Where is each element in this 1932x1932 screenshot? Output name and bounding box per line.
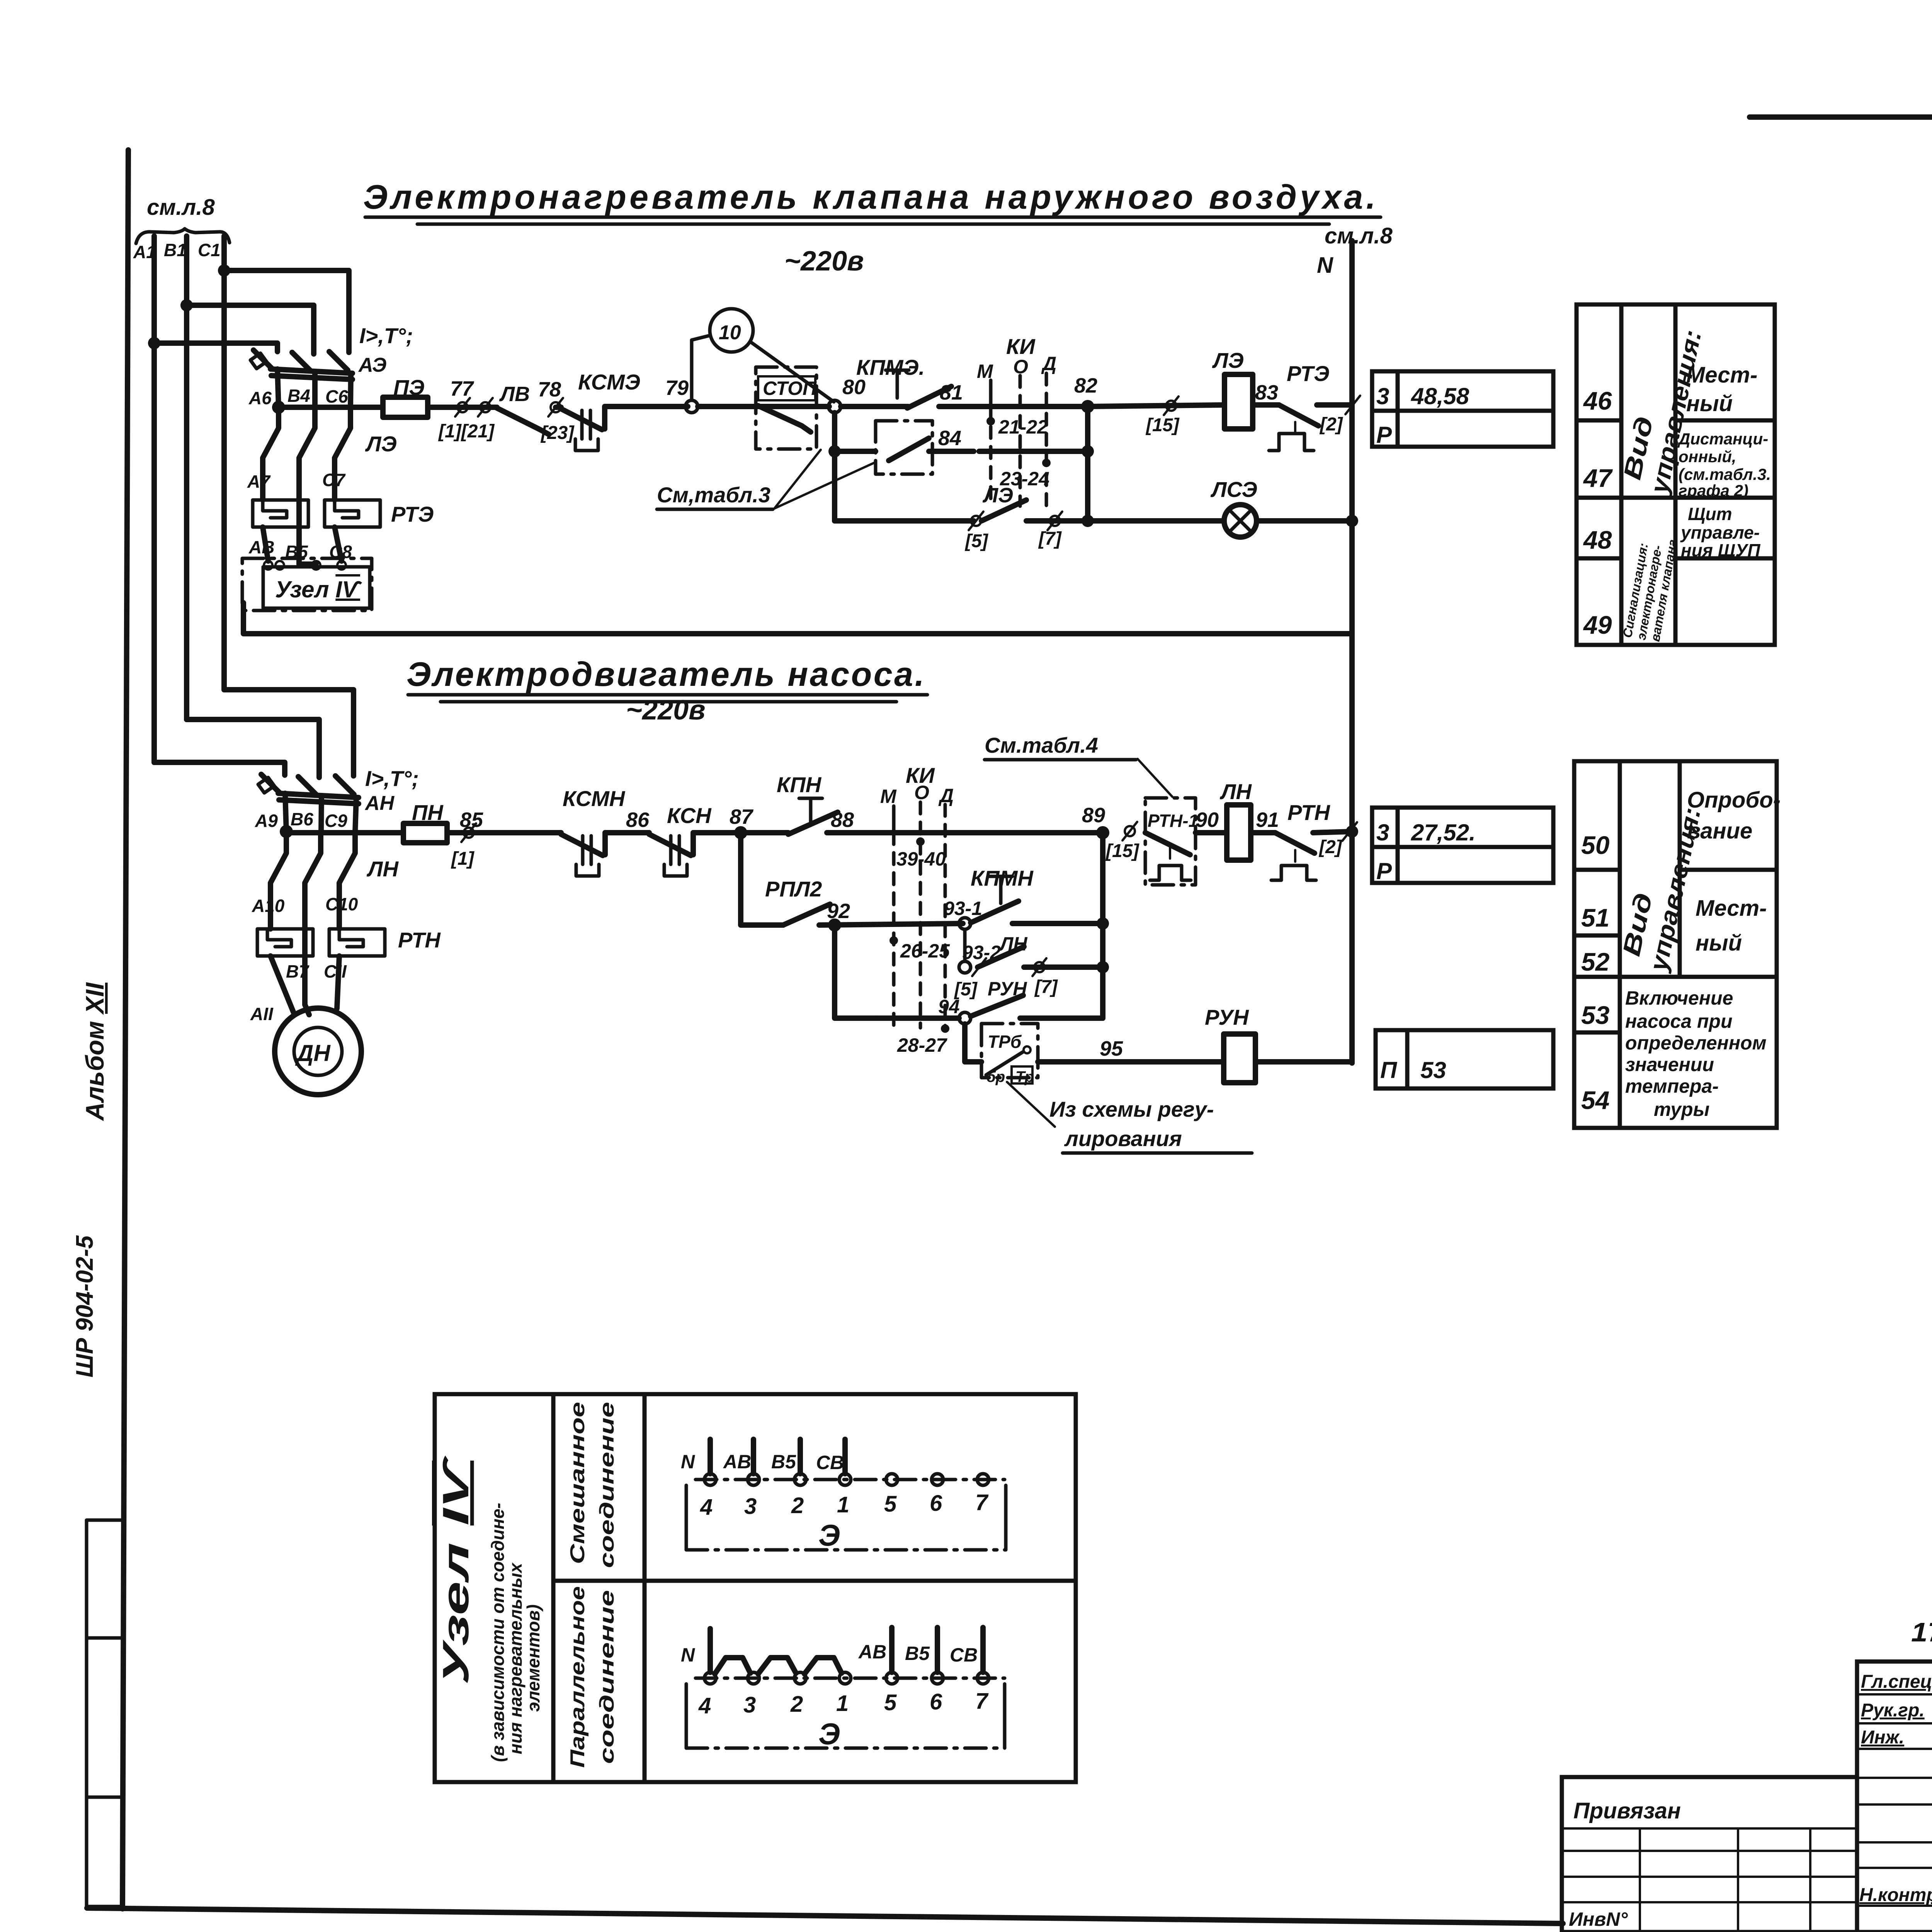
svg-text:7: 7 xyxy=(975,1689,989,1714)
svg-text:90: 90 xyxy=(1196,808,1219,832)
svg-text:А9: А9 xyxy=(255,811,278,831)
wire 91 xyxy=(1251,830,1275,835)
svg-text:О: О xyxy=(914,782,929,803)
svg-text:ный: ный xyxy=(1696,930,1742,956)
wire lamp to N xyxy=(1257,518,1352,524)
svg-text:48,58: 48,58 xyxy=(1411,383,1469,409)
svg-text:РТН: РТН xyxy=(398,928,441,952)
svg-text:РУН: РУН xyxy=(1205,1005,1249,1029)
wire 90 xyxy=(1196,830,1227,835)
svg-text:Из схемы регу-: Из схемы регу- xyxy=(1049,1097,1214,1121)
svg-text:Электронагреватель клапана н: Электронагреватель клапана наружного воз… xyxy=(363,178,1376,216)
svg-text:КСМН: КСМН xyxy=(563,786,626,811)
heater box mixed xyxy=(685,1485,688,1550)
svg-text:77: 77 xyxy=(450,377,474,400)
wire B1 to motor breaker xyxy=(187,719,319,777)
svg-text:А6: А6 xyxy=(248,388,272,408)
contactor LN pole columns xyxy=(270,833,286,929)
wire RUN coil to N xyxy=(1255,1062,1352,1063)
svg-text:78: 78 xyxy=(538,378,561,401)
svg-text:93-1: 93-1 xyxy=(944,898,982,919)
svg-text:определенном: определенном xyxy=(1625,1032,1767,1054)
wire 92 branch down xyxy=(835,925,877,1018)
mark 28-27 xyxy=(941,1024,949,1033)
svg-text:81: 81 xyxy=(940,381,963,404)
svg-text:ния нагревательных: ния нагревательных xyxy=(505,1562,526,1754)
wire 82 branch down xyxy=(1085,406,1090,521)
thermal element RTN phase A xyxy=(257,929,313,956)
svg-text:53: 53 xyxy=(1420,1057,1446,1083)
terminal box 48,58 xyxy=(1372,371,1553,447)
breaker AE body xyxy=(270,369,352,373)
svg-text:(см.табл.3.: (см.табл.3. xyxy=(1679,465,1771,483)
wire 79-80 xyxy=(698,404,829,409)
contact LE aux xyxy=(969,512,983,530)
breaker AN trip flag xyxy=(258,777,274,793)
svg-text:бр: бр xyxy=(986,1068,1005,1085)
svg-text:79: 79 xyxy=(665,376,689,400)
fuse PN xyxy=(403,823,447,843)
svg-text:АІІ: АІІ xyxy=(250,1004,274,1024)
terminals parallel xyxy=(704,1672,716,1684)
wire 80 right xyxy=(841,404,908,409)
table rows 46-49 xyxy=(1577,304,1775,645)
node on 80 branch xyxy=(828,445,841,457)
breaker AE pole blades xyxy=(253,350,272,369)
svg-text:3: 3 xyxy=(1376,383,1389,409)
uzel IV inner box xyxy=(263,567,370,608)
svg-text:2: 2 xyxy=(790,1692,803,1717)
svg-text:С9: С9 xyxy=(325,811,347,831)
svg-text:элементов): элементов) xyxy=(523,1604,543,1712)
svg-text:В1: В1 xyxy=(164,240,187,260)
svg-text:АН: АН xyxy=(364,792,395,815)
svg-text:РТН: РТН xyxy=(1287,800,1330,825)
svg-text:Мест-: Мест- xyxy=(1686,362,1757,388)
svg-text:ЛН: ЛН xyxy=(1219,779,1252,804)
feed wires parallel xyxy=(889,1628,895,1672)
svg-text:84: 84 xyxy=(938,427,961,450)
mark 26-25 xyxy=(889,936,898,945)
breaker AN pole blades xyxy=(261,774,280,793)
coil LE xyxy=(1225,374,1253,429)
terminal box 53 xyxy=(1376,1030,1553,1088)
node A9 junction xyxy=(280,825,293,838)
svg-text:7: 7 xyxy=(975,1490,989,1515)
thermal element RTN phase C xyxy=(329,929,385,956)
wire xyxy=(447,830,561,835)
wire to 82 xyxy=(981,404,1088,409)
svg-text:ЛН: ЛН xyxy=(366,857,399,881)
wire 89 branch down xyxy=(1100,833,1105,1018)
svg-text:С7: С7 xyxy=(322,470,346,490)
svg-text:[23]: [23] xyxy=(540,423,575,443)
wire 81 xyxy=(939,404,981,409)
svg-text:СТОП: СТОП xyxy=(763,378,817,399)
wire main line 2 xyxy=(286,830,403,835)
svg-text:39-40: 39-40 xyxy=(896,848,946,870)
svg-text:~220в: ~220в xyxy=(626,695,706,726)
wire xyxy=(556,405,561,410)
svg-text:П: П xyxy=(1380,1057,1398,1083)
binding box xyxy=(87,1520,123,1906)
svg-text:88: 88 xyxy=(831,808,854,832)
svg-text:Включение: Включение xyxy=(1625,987,1733,1009)
svg-text:89: 89 xyxy=(1082,804,1105,827)
svg-text:М: М xyxy=(880,786,897,807)
wire 87 branch RPL2 xyxy=(741,833,783,925)
svg-text:СІІ: СІІ xyxy=(324,961,347,981)
svg-text:48: 48 xyxy=(1583,526,1612,554)
node N at uzel return xyxy=(1350,631,1354,636)
svg-text:10: 10 xyxy=(719,321,741,344)
svg-text:27,52.: 27,52. xyxy=(1411,820,1476,845)
svg-text:ния ЩУП: ния ЩУП xyxy=(1681,540,1760,560)
privyazan block xyxy=(1562,1777,1857,1932)
svg-text:Р: Р xyxy=(1376,858,1392,884)
svg-text:КСМЭ: КСМЭ xyxy=(578,370,640,394)
svg-text:РТЭ: РТЭ xyxy=(391,502,434,526)
svg-text:ЛЭ: ЛЭ xyxy=(1212,348,1244,372)
wire main line 1 xyxy=(279,405,383,410)
svg-text:Гл.спец.: Гл.спец. xyxy=(1861,1672,1932,1692)
wires to motor xyxy=(270,956,294,1015)
svg-text:Н.контр.: Н.контр. xyxy=(1859,1885,1932,1905)
svg-text:АВ: АВ xyxy=(723,1451,751,1473)
svg-text:N: N xyxy=(681,1644,695,1666)
svg-text:Э: Э xyxy=(818,1717,840,1751)
svg-text:В6: В6 xyxy=(291,809,313,829)
svg-text:87: 87 xyxy=(730,805,754,828)
svg-text:значении: значении xyxy=(1625,1054,1714,1075)
wire 80 branch down xyxy=(832,413,837,521)
node C1 tap xyxy=(218,264,230,277)
svg-text:КИ: КИ xyxy=(1006,334,1036,359)
svg-text:[5]: [5] xyxy=(964,531,989,551)
svg-text:Параллельное: Параллельное xyxy=(566,1586,589,1768)
svg-text:[2]: [2] xyxy=(1319,414,1344,435)
svg-text:В5: В5 xyxy=(905,1643,930,1664)
contactor LE pole columns xyxy=(263,408,279,500)
svg-text:ЛЭ: ЛЭ xyxy=(982,484,1013,507)
svg-text:См,табл.3: См,табл.3 xyxy=(657,483,770,507)
svg-text:КПМЭ.: КПМЭ. xyxy=(856,355,925,379)
svg-text:51: 51 xyxy=(1581,903,1609,932)
svg-text:21-22: 21-22 xyxy=(998,416,1048,438)
svg-text:лирования: лирования xyxy=(1064,1126,1182,1151)
svg-text:РТН-1: РТН-1 xyxy=(1148,811,1198,831)
node N at line2 xyxy=(1346,825,1358,838)
wire C1 to motor breaker xyxy=(224,690,354,776)
instrument 10 xyxy=(710,309,753,352)
svg-text:[2]: [2] xyxy=(1318,837,1343,857)
pointer lines to table3 xyxy=(774,462,876,509)
svg-text:[1]: [1] xyxy=(451,849,475,869)
svg-text:91: 91 xyxy=(1256,808,1279,832)
wire 95 xyxy=(1038,1059,1224,1065)
svg-text:АЭ: АЭ xyxy=(358,354,386,376)
phase bus C1 xyxy=(221,236,227,690)
svg-text:Д: Д xyxy=(1041,353,1056,374)
svg-text:92: 92 xyxy=(827,900,850,923)
feed wires mixed xyxy=(707,1439,713,1474)
svg-text:См.табл.4: См.табл.4 xyxy=(985,733,1098,757)
svg-text:ПЭ: ПЭ xyxy=(393,375,425,400)
note from regulation circuit xyxy=(1007,1082,1055,1127)
svg-text:50: 50 xyxy=(1581,831,1610,859)
svg-text:[7]: [7] xyxy=(1034,977,1058,997)
svg-text:ТРб: ТРб xyxy=(988,1032,1022,1052)
heater box parallel xyxy=(685,1684,688,1748)
svg-text:[15]: [15] xyxy=(1145,415,1180,435)
svg-text:см.л.8: см.л.8 xyxy=(1325,223,1393,248)
svg-text:2: 2 xyxy=(791,1493,804,1518)
svg-text:ЛЭ: ЛЭ xyxy=(365,432,397,456)
breaker AN pole stubs xyxy=(285,793,286,833)
svg-text:53: 53 xyxy=(1581,1001,1609,1029)
svg-text:47: 47 xyxy=(1583,464,1613,492)
svg-text:КПН: КПН xyxy=(777,772,822,797)
svg-text:(в зависимости от соедине-: (в зависимости от соедине- xyxy=(488,1503,508,1762)
svg-text:5: 5 xyxy=(884,1690,897,1715)
sheet frame top border xyxy=(1750,114,1932,120)
node B1 tap xyxy=(180,299,193,311)
svg-text:КСН: КСН xyxy=(667,803,712,828)
svg-text:83: 83 xyxy=(1255,381,1278,404)
sheet frame bottom border xyxy=(87,1908,1563,1923)
wire bottom branch lamp xyxy=(835,518,974,524)
wire 79 to instrument xyxy=(692,335,710,400)
coil LN xyxy=(1227,805,1251,860)
svg-text:графа 2): графа 2) xyxy=(1679,481,1748,500)
svg-text:26-25: 26-25 xyxy=(900,940,950,962)
N feed parallel xyxy=(707,1629,713,1672)
svg-text:темпера-: темпера- xyxy=(1625,1075,1719,1097)
STOP contact blade xyxy=(758,406,811,432)
svg-text:управле-: управле- xyxy=(1680,522,1760,543)
svg-text:СВ: СВ xyxy=(816,1452,844,1473)
svg-text:3: 3 xyxy=(743,1692,756,1718)
wire A1 to motor breaker xyxy=(154,762,285,775)
svg-text:3: 3 xyxy=(1376,820,1389,845)
svg-text:СВ: СВ xyxy=(950,1644,978,1666)
svg-text:В7: В7 xyxy=(286,961,310,981)
svg-text:49: 49 xyxy=(1583,611,1612,639)
svg-text:РПЛ2: РПЛ2 xyxy=(765,877,822,901)
wire C1 tap to breaker xyxy=(224,270,349,352)
svg-text:I>,T°;: I>,T°; xyxy=(365,766,419,791)
thermal element RTE phase A xyxy=(253,500,308,527)
aux contact box 84 xyxy=(876,421,932,474)
svg-text:В5: В5 xyxy=(771,1451,796,1473)
svg-text:5: 5 xyxy=(884,1492,897,1517)
svg-text:17333 - 13: 17333 - 13 xyxy=(1911,1617,1932,1647)
table rows 50-54 xyxy=(1574,761,1777,1128)
svg-text:54: 54 xyxy=(1581,1086,1609,1114)
svg-text:Опробо-: Опробо- xyxy=(1687,787,1781,813)
svg-text:А7: А7 xyxy=(247,471,271,492)
svg-text:52: 52 xyxy=(1581,947,1610,976)
bracket under note xyxy=(136,229,230,243)
phase bus A1 xyxy=(151,236,157,762)
breaker AN body xyxy=(278,793,359,798)
svg-text:ЛСЭ: ЛСЭ xyxy=(1210,477,1257,502)
svg-text:N: N xyxy=(1317,253,1333,278)
svg-text:82: 82 xyxy=(1074,374,1097,397)
svg-text:46: 46 xyxy=(1583,386,1612,415)
svg-text:[7]: [7] xyxy=(1038,529,1062,549)
svg-text:ШР 904-02-5: ШР 904-02-5 xyxy=(71,1235,98,1378)
wire 88 xyxy=(827,830,1103,835)
svg-text:[15]: [15] xyxy=(1105,841,1139,861)
svg-text:Смешанное: Смешанное xyxy=(566,1402,589,1564)
junction line1 to N xyxy=(1350,403,1354,407)
svg-text:вание: вание xyxy=(1687,818,1752,844)
breaker pole stubs xyxy=(277,369,279,408)
svg-text:28-27: 28-27 xyxy=(897,1034,947,1056)
wire 94 down to TRb xyxy=(965,1024,981,1062)
svg-text:АВ: АВ xyxy=(858,1641,886,1663)
svg-text:АВ: АВ xyxy=(248,537,274,557)
svg-text:94: 94 xyxy=(938,996,960,1017)
wire xyxy=(428,405,497,410)
link 93-1 to 93-2 xyxy=(963,929,967,961)
wire A1 tap to breaker xyxy=(154,343,277,352)
node A1 tap xyxy=(148,337,160,349)
svg-text:Щит: Щит xyxy=(1688,504,1732,524)
svg-text:ДН: ДН xyxy=(295,1040,331,1066)
svg-text:Узел ІѴ: Узел ІѴ xyxy=(275,577,362,602)
title block signature table xyxy=(1857,1662,1932,1932)
svg-text:I>,T°;: I>,T°; xyxy=(359,323,413,348)
node 84 branch right xyxy=(1082,445,1094,457)
svg-text:С6: С6 xyxy=(325,386,348,406)
svg-text:С10: С10 xyxy=(325,894,358,914)
svg-text:1: 1 xyxy=(837,1492,849,1517)
wires below thermal to uzel xyxy=(263,527,268,561)
svg-text:С1: С1 xyxy=(198,240,221,260)
svg-text:[1][21]: [1][21] xyxy=(438,421,495,442)
wire 82 to coil xyxy=(1088,405,1225,406)
svg-text:туры: туры xyxy=(1654,1099,1709,1120)
svg-text:Рук.гр.: Рук.гр. xyxy=(1861,1700,1925,1721)
svg-text:86: 86 xyxy=(626,808,650,832)
svg-text:Привязан: Привязан xyxy=(1573,1798,1681,1823)
svg-text:А10: А10 xyxy=(252,896,285,916)
mark 39-40 xyxy=(916,837,925,846)
svg-text:Альбом XII: Альбом XII xyxy=(80,982,109,1121)
motor DN xyxy=(275,1008,361,1095)
wire B1 tap to breaker xyxy=(187,305,314,354)
svg-text:ПН: ПН xyxy=(412,800,444,825)
terminal box 27,52 xyxy=(1372,808,1553,883)
svg-text:4: 4 xyxy=(698,1693,711,1718)
N bus vertical xyxy=(1349,241,1355,1063)
breaker AE trip flag xyxy=(250,353,267,369)
svg-text:онный,: онный, xyxy=(1679,447,1736,466)
plug contact 15 xyxy=(1164,396,1179,415)
svg-text:соединение: соединение xyxy=(596,1590,618,1764)
uzel IV terminals xyxy=(264,561,272,570)
phase bus B1 xyxy=(184,236,189,719)
temperature relay TRb dashed box xyxy=(981,1024,1038,1078)
wire uzel return to N xyxy=(243,603,1352,634)
svg-text:3: 3 xyxy=(744,1494,757,1519)
fuse PE xyxy=(383,397,428,417)
sheet frame left border xyxy=(122,150,128,1909)
svg-text:Р: Р xyxy=(1376,422,1392,448)
STOP dashed box xyxy=(756,367,816,449)
svg-text:N: N xyxy=(681,1451,695,1473)
svg-text:1: 1 xyxy=(836,1691,849,1716)
svg-text:Э: Э xyxy=(818,1518,840,1552)
plug contact 15 line2 xyxy=(1122,822,1137,840)
svg-text:соединение: соединение xyxy=(596,1402,618,1568)
svg-text:Узел ІѴ: Узел ІѴ xyxy=(435,1455,476,1685)
wire 83 xyxy=(1253,402,1279,408)
uzel IV outer dashed box xyxy=(242,558,372,611)
svg-text:ный: ный xyxy=(1686,391,1733,416)
svg-text:6: 6 xyxy=(930,1689,942,1714)
node 82-lamp xyxy=(1082,515,1094,527)
svg-text:95: 95 xyxy=(1100,1037,1123,1060)
terminals mixed xyxy=(704,1474,716,1485)
svg-text:Инж.: Инж. xyxy=(1861,1727,1904,1748)
node A6 junction xyxy=(272,401,285,414)
wire branch 84 xyxy=(835,449,876,454)
mixed diagram terminal strip xyxy=(696,1478,1005,1481)
svg-text:6: 6 xyxy=(930,1491,942,1516)
svg-text:Электродвигатель насоса.: Электродвигатель насоса. xyxy=(406,655,924,693)
svg-text:Мест-: Мест- xyxy=(1696,896,1767,921)
uzel IV table frame xyxy=(435,1394,1076,1782)
thermal element RTE phase C xyxy=(325,500,380,527)
svg-text:В4: В4 xyxy=(287,386,310,406)
svg-text:РТЭ: РТЭ xyxy=(1287,361,1329,386)
parallel diagram terminal strip xyxy=(696,1677,1005,1680)
svg-text:ЛВ: ЛВ xyxy=(499,383,530,406)
bridges parallel xyxy=(715,1658,750,1674)
relay contact RTN-1 dashed box xyxy=(1145,798,1196,885)
svg-text:Дистанци-: Дистанци- xyxy=(1677,430,1768,448)
svg-text:ИнвN°: ИнвN° xyxy=(1569,1908,1628,1930)
svg-text:~220в: ~220в xyxy=(784,246,864,277)
wire instrument to node 80 xyxy=(751,342,834,402)
svg-text:насоса при: насоса при xyxy=(1625,1010,1733,1032)
svg-text:см.л.8: см.л.8 xyxy=(147,195,215,220)
svg-text:4: 4 xyxy=(700,1495,713,1520)
